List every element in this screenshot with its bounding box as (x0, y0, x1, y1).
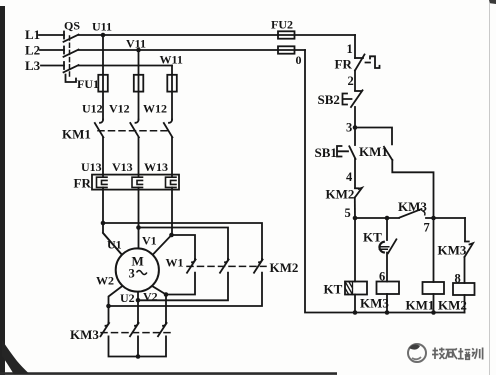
svg-text:4: 4 (346, 170, 353, 184)
switch QS linkage dashed (69, 36, 71, 78)
contactor KM3 coil box (377, 282, 400, 295)
svg-text:7: 7 (424, 221, 430, 235)
svg-text:KM2: KM2 (270, 260, 299, 275)
wire KM2 pole 3 to W2 (109, 273, 263, 306)
contactor KM1 main pole U blade (95, 123, 104, 137)
contactor KM2 pole 3 hook (259, 259, 262, 262)
svg-text:FR: FR (74, 176, 92, 191)
svg-text:KM3: KM3 (360, 296, 389, 311)
wire node 2-3 segment (354, 107, 356, 145)
relay FR trip element (366, 56, 380, 68)
wire U13 segment (102, 138, 104, 178)
contactor KM3 pole 3 hook (163, 323, 166, 326)
wire KM1 coil to bottom rail (433, 294, 435, 313)
contactor KM3 aux NO blade (400, 209, 422, 218)
wire L2 phase line (40, 49, 305, 51)
thermal relay FR heater V (132, 177, 143, 187)
contactor KM1 linkage dashed (98, 130, 167, 132)
wire KM2 coil to bottom rail (464, 295, 466, 313)
switch QS pole 1 blade (64, 35, 79, 42)
button SB1 blade (349, 146, 355, 159)
svg-text:KM1: KM1 (359, 144, 388, 159)
contactor KM3 pole 2 blade (130, 323, 139, 336)
motor M circle (116, 248, 159, 291)
wire W tap to KM2 pole 1 (172, 235, 196, 259)
wire L1 phase line (39, 34, 355, 36)
corner swoosh bottom-left (2, 340, 29, 375)
svg-text:KM1: KM1 (406, 298, 435, 313)
fuse FU1 phase W (167, 75, 177, 92)
wire U11 column through fuse to KM1 (102, 35, 104, 120)
svg-text:FU2: FU2 (271, 18, 293, 32)
contactor KM2 NC contact tick (355, 187, 359, 189)
timer KT delayed contact arc (379, 242, 383, 253)
node 7 dot (431, 216, 436, 221)
contactor KM1 main pole V hook (136, 120, 139, 123)
wire node 5 horizontal (355, 217, 465, 219)
contactor KM3 aux NO hook (423, 211, 425, 215)
fuse FU1 phase V (134, 75, 144, 92)
svg-text:W2: W2 (96, 274, 114, 288)
svg-text:V1: V1 (142, 234, 157, 248)
svg-text:1: 1 (347, 42, 353, 56)
wire W phase FR to junction (171, 188, 173, 236)
svg-text:8: 8 (455, 272, 461, 286)
wire U2 terminal to KM3 (137, 293, 139, 323)
corner tick top-right (489, 0, 496, 4)
timer KT coil hatch (345, 282, 353, 295)
contactor KM2 pole 1 hook (192, 259, 195, 262)
contactor KM2 NC contact blade (355, 188, 362, 198)
wire KM2 pole 1 to V2 (166, 273, 195, 295)
node 5 dot (353, 216, 358, 221)
wire control phase rail top (354, 35, 356, 58)
contactor KM2 linkage dashed (187, 265, 266, 267)
svg-text:U12: U12 (82, 102, 103, 116)
wire L3 phase line (41, 65, 172, 67)
wire W2 terminal to KM3 (109, 286, 122, 322)
switch QS pole 2 blade (64, 50, 79, 57)
node KT branch dot (385, 216, 390, 221)
contactor KM1 aux contact blade (384, 147, 392, 160)
contactor KM1 main pole V blade (130, 123, 139, 137)
node W2 dot (106, 304, 111, 309)
svg-text:KM1: KM1 (62, 127, 91, 142)
contactor KM1 main pole W blade (164, 123, 173, 137)
relay FR NC contact tick (355, 57, 363, 59)
fuse FU2 upper (278, 31, 295, 38)
wire node 7 branch down to KM3 NC (464, 218, 466, 241)
contactor KM3 linkage dashed (101, 332, 170, 334)
edge bar left (0, 6, 5, 375)
timer KT coil box (345, 282, 367, 295)
node V11 junction dot (136, 48, 141, 53)
svg-text:3: 3 (346, 121, 352, 135)
wire U phase FR to motor (103, 188, 122, 255)
wire W1 terminal diagonal (153, 235, 172, 255)
contactor KM1 coil box (423, 282, 445, 294)
wire KM1 aux to node 7 (392, 160, 433, 218)
timer KT delayed contact plates (379, 247, 389, 250)
wire W13 segment (171, 138, 173, 178)
svg-text:KT: KT (363, 230, 382, 245)
node 3 dot (353, 125, 358, 130)
node U11 junction dot (101, 33, 106, 38)
watermark text strokes (432, 348, 483, 360)
switch QS handle hook (66, 75, 77, 83)
wire KT contact to KM3 coil (386, 253, 388, 282)
contactor KM3 NC contact tick (465, 241, 469, 243)
svg-text:V11: V11 (126, 37, 146, 51)
wire V tap to KM2 pole 2 (139, 228, 229, 260)
scan edge artifact right (489, 0, 491, 375)
svg-text:QS: QS (64, 19, 80, 33)
contactor KM3 NC contact blade (465, 243, 474, 257)
wire W11 column through fuse to KM1 (171, 66, 173, 120)
wire node 4-5 segment (354, 198, 356, 219)
fuse FU1 phase U (98, 75, 108, 92)
svg-text:0: 0 (296, 53, 302, 67)
svg-text:L2: L2 (25, 43, 40, 58)
node KM1 coil rail dot (431, 310, 436, 315)
timer KT delayed contact blade (388, 239, 396, 253)
wire KM3 star bus (109, 336, 167, 356)
wire V2 terminal to KM3 (153, 286, 166, 322)
svg-text:KM3: KM3 (398, 199, 427, 214)
svg-text:FR: FR (335, 57, 353, 72)
contactor KM1 main pole U hook (100, 120, 103, 123)
contactor KM3 pole 1 blade (101, 323, 110, 336)
thermal relay FR box (92, 175, 179, 190)
wire V11 column through fuse to KM1 (138, 50, 140, 120)
svg-text:KM2: KM2 (438, 298, 467, 313)
fuse FU2 lower (278, 46, 295, 53)
node star point dot (136, 354, 141, 359)
wire node 3-4 segment (354, 159, 356, 188)
svg-text:L3: L3 (25, 58, 41, 73)
contactor KM3 pole 2 hook (135, 323, 138, 326)
contactor KM2 coil box (453, 283, 475, 295)
svg-text:V12: V12 (109, 102, 130, 116)
svg-text:SB2: SB2 (318, 92, 340, 107)
node U tap dot (101, 221, 106, 226)
node U2 dot (136, 298, 141, 303)
button SB2 contact tick (355, 90, 361, 92)
contactor KM2 pole 2 blade (220, 260, 229, 273)
node KT coil rail dot (353, 310, 358, 315)
contactor KM2 pole 1 blade (187, 260, 196, 273)
contactor KM2 pole 2 hook (225, 259, 228, 262)
svg-text:W12: W12 (143, 102, 167, 116)
svg-text:SB1: SB1 (315, 145, 337, 160)
switch QS pole 2 contact tick (63, 47, 65, 54)
button SB1 actuator (337, 146, 348, 157)
edge line bottom (0, 372, 337, 375)
wire U tap to KM2 pole 3 (103, 223, 262, 259)
button SB2 actuator (343, 94, 352, 105)
svg-text:V2: V2 (143, 290, 158, 304)
wire KM2 pole 2 to U2 (138, 273, 228, 301)
svg-text:2: 2 (348, 74, 354, 88)
button SB2 blade (351, 90, 363, 107)
svg-text:U2: U2 (120, 291, 135, 305)
wire KT contact branch upper (386, 218, 388, 240)
switch QS pole 1 contact tick (63, 32, 65, 39)
contactor KM3 pole 3 blade (158, 323, 167, 336)
svg-text:KT: KT (324, 282, 343, 297)
svg-text:W1: W1 (166, 256, 184, 270)
node W tap dot (169, 233, 174, 238)
contactor KM3 pole 1 hook (106, 323, 109, 326)
wire node 1-2 segment (354, 71, 356, 91)
wire control neutral 0 rail (305, 50, 465, 313)
svg-text:5: 5 (345, 206, 351, 220)
wire KM3 coil to bottom rail (386, 294, 388, 313)
wire node 7 to KM1 coil (433, 218, 435, 282)
thermal relay FR heater U (97, 177, 108, 187)
svg-text:W11: W11 (160, 53, 183, 67)
switch QS pole 3 blade (64, 65, 79, 72)
label phase tilde (137, 271, 147, 275)
svg-text:3: 3 (129, 267, 135, 281)
svg-text:KM2: KM2 (326, 187, 355, 202)
svg-text:U11: U11 (92, 20, 112, 34)
contactor KM2 pole 3 blade (254, 260, 263, 273)
node KM3 coil rail dot (385, 310, 390, 315)
contactor KM1 main pole W hook (169, 120, 172, 123)
node V2 dot (164, 292, 169, 297)
svg-text:6: 6 (379, 270, 385, 284)
svg-text:KM3: KM3 (438, 243, 467, 258)
wire U1 terminal diagonal (103, 233, 122, 255)
svg-text:L1: L1 (25, 27, 40, 42)
svg-text:W13: W13 (144, 160, 168, 174)
wire KT coil to bottom rail (354, 295, 356, 313)
watermark logo (408, 344, 426, 362)
wire node 3 branch to KM1 aux (355, 128, 392, 145)
relay FR NC contact blade (355, 55, 365, 71)
svg-text:U13: U13 (81, 160, 102, 174)
wire V phase FR to motor (138, 188, 140, 249)
switch QS pole 3 contact tick (63, 62, 65, 69)
svg-text:U1: U1 (107, 238, 122, 252)
wire V13 segment (138, 138, 140, 178)
svg-text:V13: V13 (112, 160, 133, 174)
wire KT coil branch (354, 218, 356, 282)
svg-text:FU1: FU1 (77, 77, 99, 91)
wire KM3 NC to KM2 coil (464, 257, 466, 283)
node V tap dot (136, 225, 141, 230)
thermal relay FR heater W (166, 177, 177, 187)
svg-text:KM3: KM3 (70, 327, 99, 342)
